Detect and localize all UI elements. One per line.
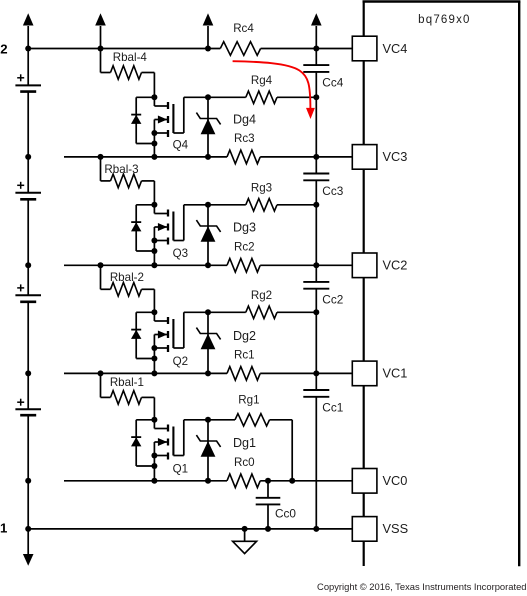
node dots VC0 rail xyxy=(25,478,295,484)
label Q2 xyxy=(173,355,188,368)
svg-text:Dg4: Dg4 xyxy=(233,112,256,126)
transistor Q1 (NMOS with body diode) xyxy=(131,417,208,481)
svg-text:Q4: Q4 xyxy=(173,139,189,152)
node Rg4/Cc junction xyxy=(313,94,319,100)
svg-text:VC4: VC4 xyxy=(383,41,408,56)
wire Cc column (VC sense line) xyxy=(315,49,317,529)
label Rbal-3 xyxy=(104,163,138,176)
svg-text:Copyright © 2016, Texas Instru: Copyright © 2016, Texas Instruments Inco… xyxy=(317,581,526,592)
zener diode Dg1 xyxy=(196,417,220,481)
label Rg4 xyxy=(251,74,273,87)
svg-text:Rc3: Rc3 xyxy=(234,132,255,145)
capacitor Cc1 xyxy=(303,390,329,397)
resistor Rc1 xyxy=(227,367,260,381)
pin VC0 xyxy=(352,469,407,494)
copyright notice xyxy=(317,581,526,592)
zener diode Dg2 xyxy=(196,309,220,373)
transistor Q3 (NMOS with body diode) xyxy=(131,202,208,265)
pin VC4 xyxy=(352,36,407,61)
label Q3 xyxy=(173,247,188,260)
battery cell 2 xyxy=(15,284,41,301)
wire Cc0 branch xyxy=(267,481,269,529)
svg-text:Q3: Q3 xyxy=(173,247,188,260)
svg-text:Rg1: Rg1 xyxy=(238,394,259,407)
svg-text:Q2: Q2 xyxy=(173,355,188,368)
label Cc4 xyxy=(322,76,343,90)
wire top rail (cell 2 / VC4 net) xyxy=(28,48,352,50)
resistor Rg1 xyxy=(208,414,292,481)
label Dg3 xyxy=(233,221,256,235)
svg-text:Cc0: Cc0 xyxy=(275,507,296,521)
up arrow 3 (to protection/top of stack) xyxy=(203,13,214,48)
resistor Rg4 xyxy=(208,91,316,103)
resistor Rg3 xyxy=(208,199,316,211)
svg-text:VSS: VSS xyxy=(383,521,409,536)
battery cell 4 xyxy=(15,74,41,91)
label Q4 xyxy=(173,139,189,152)
label Dg4 xyxy=(233,112,256,126)
svg-text:1: 1 xyxy=(0,520,7,535)
resistor Rbal-3 xyxy=(101,157,155,205)
svg-text:Rbal-1: Rbal-1 xyxy=(110,376,144,389)
node dots top rail xyxy=(25,46,319,52)
up arrow 1 (to protection/top of stack) xyxy=(23,13,34,48)
pin VC1 xyxy=(352,361,407,386)
resistor Rbal-4 xyxy=(101,49,155,98)
label Cc3 xyxy=(322,184,343,198)
resistor Rbal-1 xyxy=(101,373,155,419)
svg-text:Cc4: Cc4 xyxy=(322,76,343,90)
node dots VC2 rail xyxy=(25,262,319,268)
node dots VSS rail xyxy=(25,526,319,532)
node dots VC1 rail xyxy=(25,370,319,376)
node Rg3/Cc junction xyxy=(313,202,319,208)
resistor Rc0 xyxy=(227,474,260,488)
transistor Q4 (NMOS with body diode) xyxy=(131,94,208,157)
svg-text:Rg2: Rg2 xyxy=(251,289,272,302)
wire VC0 rail xyxy=(64,480,352,482)
svg-text:Rbal-4: Rbal-4 xyxy=(113,51,148,64)
label Q1 xyxy=(173,462,188,475)
svg-text:Dg2: Dg2 xyxy=(233,329,256,343)
node 2 (pack top) label xyxy=(0,42,7,57)
resistor Rc4 xyxy=(220,42,260,56)
node 1 (pack bottom) label xyxy=(0,520,7,535)
capacitor Cc3 xyxy=(303,174,329,181)
down arrow pack negative xyxy=(23,529,34,566)
wire battery stack column xyxy=(27,49,29,529)
red current-flow arrow xyxy=(233,61,315,119)
svg-text:VC0: VC0 xyxy=(383,473,408,488)
resistor Rg2 xyxy=(208,306,316,318)
label Rc2 xyxy=(234,240,255,253)
svg-text:VC2: VC2 xyxy=(383,258,408,273)
svg-text:VC3: VC3 xyxy=(383,149,408,164)
wire VC2 rail xyxy=(64,264,352,266)
wire VC1 rail xyxy=(64,372,352,374)
ground symbol xyxy=(233,529,257,554)
battery cell 1 xyxy=(15,399,41,416)
label Dg1 xyxy=(233,436,256,450)
label Cc1 xyxy=(322,401,343,415)
capacitor Cc0 xyxy=(256,498,281,505)
resistor Rbal-2 xyxy=(101,265,155,312)
label Rbal-4 xyxy=(113,51,148,64)
label Rc0 xyxy=(234,456,255,469)
capacitor Cc4 xyxy=(303,65,329,72)
pin VC3 xyxy=(352,145,407,170)
svg-text:Q1: Q1 xyxy=(173,462,188,475)
svg-text:Cc2: Cc2 xyxy=(322,293,343,307)
label Rbal-1 xyxy=(110,376,144,389)
label Rg1 xyxy=(238,394,259,407)
svg-text:VC1: VC1 xyxy=(383,366,408,381)
label Rc1 xyxy=(234,348,255,361)
svg-text:Cc1: Cc1 xyxy=(322,401,343,415)
label Cc2 xyxy=(322,293,343,307)
label Rc3 xyxy=(234,132,255,145)
svg-text:Rc1: Rc1 xyxy=(234,348,255,361)
svg-text:Rc4: Rc4 xyxy=(233,22,254,35)
label Rg2 xyxy=(251,289,272,302)
resistor Rc2 xyxy=(227,259,260,273)
IC label bq769x0 xyxy=(418,14,471,26)
label Cc0 xyxy=(275,507,296,521)
up arrow 2 (to protection/top of stack) xyxy=(95,13,106,48)
IC U1 bq769x0 outline xyxy=(363,2,521,567)
pin VSS xyxy=(352,517,408,542)
node dots VC3 rail xyxy=(25,154,319,160)
svg-text:Rg4: Rg4 xyxy=(251,74,273,87)
transistor Q2 (NMOS with body diode) xyxy=(131,309,208,373)
up arrow 4 (to protection/top of stack) xyxy=(311,13,322,48)
capacitor Cc2 xyxy=(303,282,329,289)
svg-text:Rbal-2: Rbal-2 xyxy=(110,271,144,284)
label Rc4 xyxy=(233,22,254,35)
node Rg2/Cc junction xyxy=(313,309,319,315)
svg-text:Rg3: Rg3 xyxy=(251,181,272,194)
zener diode Dg4 xyxy=(196,94,220,157)
svg-text:Rc2: Rc2 xyxy=(234,240,255,253)
pin VC2 xyxy=(352,253,407,278)
label Rbal-2 xyxy=(110,271,144,284)
svg-text:2: 2 xyxy=(0,42,7,57)
svg-text:Dg1: Dg1 xyxy=(233,436,256,450)
svg-text:Cc3: Cc3 xyxy=(322,184,343,198)
svg-text:Rbal-3: Rbal-3 xyxy=(104,163,138,176)
label Rg3 xyxy=(251,181,272,194)
svg-text:Dg3: Dg3 xyxy=(233,221,256,235)
zener diode Dg3 xyxy=(196,202,220,265)
svg-text:Rc0: Rc0 xyxy=(234,456,255,469)
wire VSS bottom rail (cell 1) xyxy=(28,528,352,530)
battery cell 3 xyxy=(15,182,41,200)
label Dg2 xyxy=(233,329,256,343)
svg-text:bq769x0: bq769x0 xyxy=(418,14,471,26)
wire VC3 rail xyxy=(64,156,352,158)
resistor Rc3 xyxy=(227,150,260,164)
